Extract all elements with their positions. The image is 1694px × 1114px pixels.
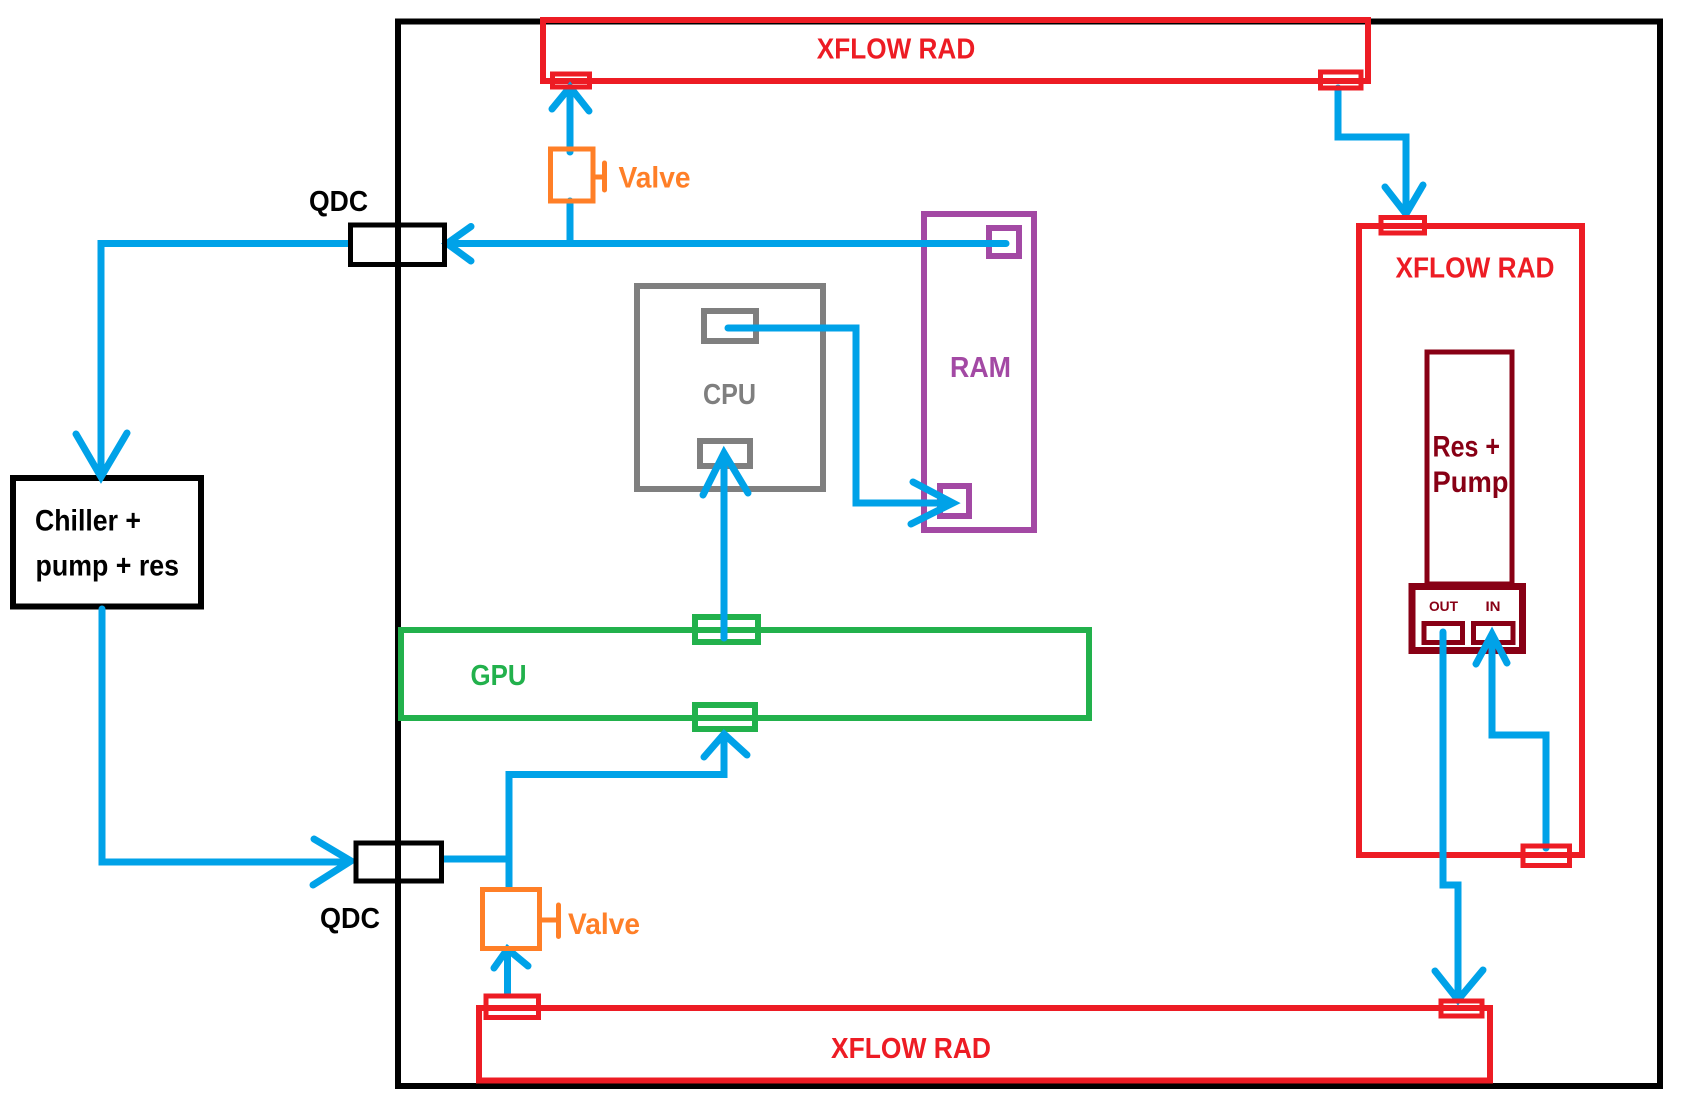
CPU block (637, 286, 823, 489)
right rad top port (1381, 218, 1425, 234)
arrow into chiller (76, 433, 127, 477)
arrow into GPU bottom port (704, 734, 747, 757)
svg-text:XFLOW RAD: XFLOW RAD (817, 34, 976, 66)
arrow into QDC1 (447, 227, 471, 262)
svg-text:Pump: Pump (1433, 466, 1509, 499)
chiller block (13, 478, 201, 607)
arrow into QDC2 (313, 839, 351, 885)
svg-text:OUT: OUT (1429, 599, 1459, 614)
pump OUT port (1424, 624, 1463, 643)
wire bottom rad left port to valve2 (504, 951, 511, 993)
CPU top port (704, 311, 756, 341)
wire RAM top port to QDC1 (449, 240, 1006, 247)
wire GPU top port to CPU bottom port (721, 455, 728, 638)
RAM top port (989, 228, 1019, 256)
svg-text:XFLOW RAD: XFLOW RAD (831, 1033, 991, 1065)
svg-text:Res +: Res + (1433, 431, 1501, 464)
radiator bottom XFLOW RAD (479, 1008, 1490, 1081)
RAM block (924, 214, 1034, 530)
radiator top XFLOW RAD (543, 20, 1368, 81)
pump out/in block (1412, 587, 1523, 651)
wire right rad bottom port to pump IN (1492, 636, 1546, 848)
valve 2 (483, 890, 641, 949)
svg-text:Valve: Valve (568, 908, 640, 941)
wire QDC1 to chiller (101, 244, 348, 475)
arrow into top rad left port (552, 87, 589, 111)
QDC top connector (309, 186, 445, 265)
valve 1 (551, 149, 691, 201)
arrow into pump IN port (1476, 634, 1507, 664)
radiator right XFLOW RAD (1359, 226, 1582, 855)
svg-text:CPU: CPU (703, 379, 756, 411)
case border (398, 22, 1660, 1087)
svg-text:pump + res: pump + res (36, 550, 180, 583)
wire QDC2 to junction (444, 856, 509, 863)
arrow into valve2 (494, 949, 528, 968)
GPU top port (695, 617, 758, 642)
wire chiller to QDC2 (102, 609, 348, 862)
arrow into RAM bottom port (911, 482, 953, 524)
svg-text:XFLOW RAD: XFLOW RAD (1396, 253, 1555, 285)
pump IN port (1474, 624, 1514, 643)
svg-text:RAM: RAM (950, 352, 1011, 384)
svg-text:QDC: QDC (309, 186, 368, 218)
top rad left port (553, 74, 590, 87)
wire valve1 top to rad port (567, 88, 574, 152)
arrow into bottom rad right port (1435, 970, 1483, 1000)
CPU bottom port (700, 441, 750, 466)
wire junction to GPU bottom port (509, 736, 724, 888)
GPU bottom port (695, 705, 755, 729)
reservoir Res + Pump (1427, 352, 1512, 584)
bottom rad right port (1441, 1001, 1482, 1016)
arrow into right rad top port (1385, 185, 1423, 214)
QDC bottom connector (320, 843, 442, 935)
top rad right port (1321, 72, 1362, 88)
svg-text:GPU: GPU (471, 660, 527, 692)
svg-text:Chiller +: Chiller + (35, 505, 141, 538)
wire valve1 bottom to junction (567, 201, 574, 244)
GPU block (401, 617, 1089, 729)
svg-text:IN: IN (1486, 599, 1501, 614)
right rad bottom port (1523, 846, 1570, 866)
arrow into CPU bottom port (703, 453, 748, 495)
svg-text:Valve: Valve (619, 162, 691, 195)
RAM bottom port (940, 486, 969, 516)
wire CPU top port to RAM bottom port (728, 328, 950, 503)
wire top rad right port to right rad top port (1338, 88, 1406, 213)
svg-text:QDC: QDC (320, 903, 380, 935)
wire pump OUT to bottom rad right port (1443, 632, 1458, 999)
bottom rad left port (486, 996, 539, 1018)
